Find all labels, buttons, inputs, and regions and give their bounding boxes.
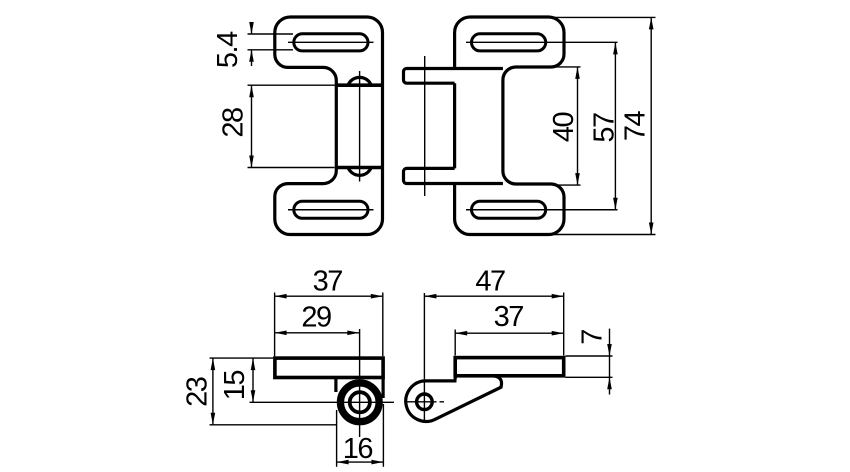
barrel bottom curl arc <box>348 168 371 176</box>
svg-text:23: 23 <box>182 377 214 407</box>
lug pin hole <box>417 394 433 410</box>
dimension 5.4 <box>248 23 294 67</box>
svg-text:15: 15 <box>219 371 251 401</box>
svg-text:29: 29 <box>301 301 331 333</box>
left plate <box>275 358 383 377</box>
dimension 16 <box>337 404 384 467</box>
dimension 74 <box>554 17 656 234</box>
svg-text:5.4: 5.4 <box>212 31 244 68</box>
barrel bottom edge <box>336 166 382 170</box>
lug outline <box>406 376 502 422</box>
barrel top edge <box>336 83 382 87</box>
dimension 15 <box>252 358 254 402</box>
prong pin centerline <box>424 56 426 196</box>
top slot centerline extended to 57 dim <box>466 41 618 43</box>
dimension 7 <box>566 329 613 395</box>
barrel right tangent <box>382 378 385 399</box>
left leaf bottom slot <box>294 201 368 218</box>
lug centerline vertical / 47 left ext <box>423 293 425 421</box>
right leaf outline <box>455 17 564 235</box>
dimension 28 <box>248 85 336 167</box>
svg-text:7: 7 <box>577 330 609 345</box>
bottom slot centerline extended to 57 dim <box>466 209 618 211</box>
barrel top curl arc <box>348 77 371 85</box>
plate left edge stub <box>454 376 457 380</box>
svg-text:74: 74 <box>619 111 651 142</box>
svg-text:47: 47 <box>475 266 505 298</box>
dimension 47 <box>424 293 563 356</box>
right leaf top knuckle prong <box>404 69 503 84</box>
top slot centerline <box>288 41 374 43</box>
dimension 40 <box>554 67 581 185</box>
svg-text:28: 28 <box>217 108 249 138</box>
right leaf top slot <box>472 34 546 51</box>
svg-text:37: 37 <box>313 265 343 297</box>
dimension 57 <box>614 42 616 209</box>
svg-text:57: 57 <box>588 113 620 143</box>
dimension 37 (right) <box>455 330 564 356</box>
crosshair vertical / 29 ext <box>359 329 361 437</box>
lug crosshair horizontal <box>405 401 445 403</box>
left leaf top slot <box>294 34 368 51</box>
right leaf bottom knuckle prong <box>404 168 503 183</box>
svg-text:40: 40 <box>548 113 580 143</box>
right leaf left edge between prongs <box>453 83 456 168</box>
dimension 23 <box>210 358 337 425</box>
dimension 29 <box>275 332 360 334</box>
right plate <box>455 358 564 376</box>
barrel pin centerline <box>359 71 361 182</box>
dimension 37 (left) <box>275 293 383 357</box>
bottom slot centerline <box>288 209 374 211</box>
barrel left tangent <box>334 378 337 393</box>
svg-text:16: 16 <box>343 433 373 465</box>
barrel outer ring <box>340 383 379 422</box>
left leaf outline <box>275 17 383 235</box>
crosshair horizontal / 15 ext <box>250 401 395 403</box>
right leaf bottom slot <box>472 201 546 218</box>
svg-text:37: 37 <box>494 301 524 333</box>
pin ring <box>350 392 370 412</box>
